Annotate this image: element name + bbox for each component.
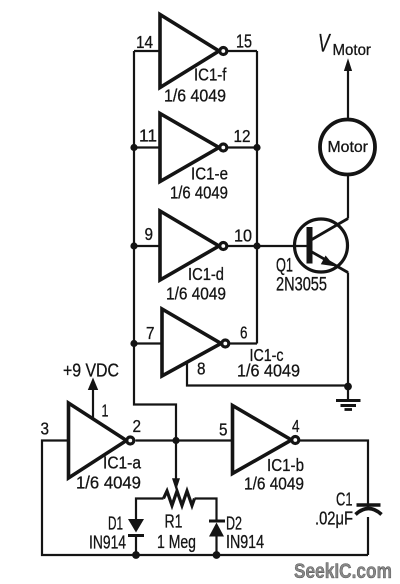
svg-text:Motor: Motor [333, 42, 371, 60]
diode D2 [209, 514, 264, 552]
svg-text:1/6 4049: 1/6 4049 [170, 183, 228, 202]
svg-text:SeekIC.com: SeekIC.com [294, 559, 392, 583]
svg-text:4: 4 [292, 417, 300, 436]
svg-text:1/6 4049: 1/6 4049 [244, 475, 304, 494]
capacitor C1 [315, 490, 382, 528]
wire right feedback bus [256, 51, 258, 344]
svg-text:D2: D2 [226, 514, 242, 534]
svg-text:3: 3 [41, 418, 49, 438]
svg-text:1/6 4049: 1/6 4049 [164, 86, 226, 106]
svg-text:D1: D1 [108, 514, 123, 534]
wire pin 14 input [134, 50, 160, 52]
wire pin 9 input [134, 245, 160, 247]
wire IC1-a output to IC1-b input [136, 439, 233, 441]
ground [336, 387, 361, 410]
node V Motor label [318, 28, 371, 59]
svg-text:IC1-a: IC1-a [103, 453, 142, 473]
svg-text:R1: R1 [165, 512, 183, 532]
wire D2 anode to bottom bus [215, 537, 217, 556]
wire motor to supply arrow [347, 70, 349, 120]
inverter IC1-a [69, 403, 142, 493]
wire R1 wiper lead [175, 441, 177, 481]
svg-text:14: 14 [136, 32, 153, 52]
svg-text:IC1-f: IC1-f [194, 65, 227, 84]
svg-text:15: 15 [236, 32, 252, 52]
wire pin 12 output [228, 146, 257, 148]
svg-text:10: 10 [234, 226, 252, 246]
wire pin 7 input [134, 342, 161, 344]
wire pin 3 input loop left side [42, 441, 368, 556]
inverter IC1-c [162, 309, 300, 381]
motor M1 [320, 120, 375, 175]
wire pin 15 output [228, 50, 257, 52]
wire collector to motor [347, 175, 349, 219]
node V motor arrowhead [344, 58, 352, 71]
svg-text:12: 12 [234, 126, 251, 146]
wire pin 1 supply lead [92, 389, 94, 420]
svg-text:9: 9 [145, 224, 153, 244]
wire IC1-b output to C1 [300, 441, 368, 509]
svg-text:5: 5 [219, 419, 227, 439]
transistor Q1 [276, 219, 348, 296]
wire pin 11 input [134, 146, 160, 148]
svg-text:IC1-d: IC1-d [188, 265, 224, 284]
wire D1 cathode to bottom bus [135, 536, 137, 556]
svg-text:2: 2 [133, 416, 141, 436]
wire R1 right lead and D2 branch [195, 499, 217, 522]
node junction dots [130, 144, 137, 151]
svg-text:8: 8 [197, 358, 205, 378]
wire C1 to bottom bus [367, 517, 369, 555]
wire pin 6 output [229, 342, 257, 344]
svg-text:7: 7 [146, 323, 154, 343]
svg-text:IC1-b: IC1-b [267, 456, 304, 475]
diode D1 [89, 514, 144, 553]
svg-text:2N3055: 2N3055 [276, 272, 327, 295]
svg-text:+9 VDC: +9 VDC [63, 359, 119, 380]
svg-text:11: 11 [139, 125, 157, 145]
svg-text:IC1-e: IC1-e [191, 165, 228, 184]
svg-text:1: 1 [102, 401, 109, 421]
svg-text:Motor: Motor [328, 139, 368, 156]
svg-text:1 Meg: 1 Meg [157, 532, 196, 552]
svg-text:IN914: IN914 [226, 532, 264, 552]
resistor R1 (pot) [157, 478, 196, 552]
svg-text:1/6 4049: 1/6 4049 [237, 361, 300, 381]
inverter IC1-e [160, 114, 228, 203]
svg-text:IN914: IN914 [89, 533, 126, 553]
wire R1 left lead and D1 branch [136, 499, 164, 520]
svg-text:.02μF: .02μF [315, 508, 353, 529]
inverter IC1-f [160, 15, 227, 106]
svg-text:1/6 4049: 1/6 4049 [166, 285, 226, 304]
supply arrowhead [88, 378, 98, 391]
inverter IC1-b [233, 406, 305, 494]
wire left input bus [134, 51, 176, 441]
wire pin 10 output to base [228, 245, 307, 247]
svg-text:1/6 4049: 1/6 4049 [76, 473, 141, 492]
inverter IC1-d [160, 211, 227, 304]
wire pin 8 [187, 362, 348, 386]
wire emitter to ground [347, 273, 349, 387]
svg-text:6: 6 [240, 324, 248, 343]
